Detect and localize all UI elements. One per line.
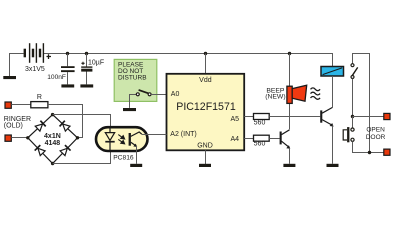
relay contact switch [352, 67, 358, 75]
node: rail junction at beeper [288, 52, 291, 55]
node: bridge bottom corner [51, 162, 54, 165]
wire: Q1 emitter to ground [289, 148, 291, 164]
wire: Q2 emitter to ground [332, 125, 334, 163]
svg-text:A2 (INT): A2 (INT) [170, 131, 196, 138]
wire: A5 stub [244, 116, 253, 118]
capacitor C2 10uF electrolytic [81, 66, 92, 67]
ground (100nF) [61, 84, 74, 87]
svg-text:(NEW): (NEW) [265, 94, 285, 101]
svg-text:DISTURB: DISTURB [118, 75, 147, 82]
diode D2 (right to top) [60, 121, 71, 132]
svg-text:A4: A4 [230, 136, 239, 143]
diode D1 (left to top) [35, 121, 46, 132]
capacitor C1 100nF [61, 66, 75, 68]
svg-text:560: 560 [254, 141, 266, 148]
node: bridge top corner [51, 113, 54, 116]
terminal ringer top [5, 102, 11, 108]
svg-text:OPEN: OPEN [366, 127, 385, 134]
resistor R3 560 [254, 135, 270, 141]
wire: bridge minus to opto cathode [53, 151, 111, 164]
opto phototransistor [129, 133, 131, 146]
wire: beeper to Q1 collector [289, 103, 291, 129]
ground (Q2) [327, 164, 339, 167]
wire: to door terminal top [353, 116, 384, 118]
resistor R2 560 [254, 114, 270, 120]
svg-text:A0: A0 [171, 91, 180, 98]
node: bridge left corner [26, 136, 29, 139]
wire: bridge plus to opto anode [53, 115, 111, 128]
wire: opto emitter to ground [136, 146, 138, 164]
optocoupler U2 PC816 body [96, 127, 148, 151]
wire: Vdd [205, 54, 207, 74]
opto light arrows [118, 135, 124, 144]
transistor Q1 [280, 132, 282, 145]
opto LED [109, 127, 111, 151]
ground (disturb switch) [123, 108, 136, 111]
wire: pushbutton to door terminal bottom [353, 141, 384, 152]
wire: node to pushbutton [352, 117, 354, 128]
svg-text:R: R [37, 94, 42, 101]
diode D3 (bottom to left) [35, 145, 46, 156]
transistor Q2 [320, 110, 322, 122]
svg-text:(OLD): (OLD) [4, 123, 23, 130]
wire: 100nF stubs [67, 54, 69, 85]
wire: A4 stub [244, 138, 253, 140]
svg-text:560: 560 [254, 120, 266, 127]
ground (opto) [130, 164, 142, 167]
pushbutton S2 [351, 128, 354, 131]
wire: chip GND to ground [205, 150, 207, 164]
beeper sound waves [311, 88, 321, 99]
wire: 560 to Q1 base [269, 138, 279, 140]
relay K1 coil [321, 67, 344, 77]
ground (10uF) [80, 84, 93, 87]
wire: relay to Q2 collector [332, 76, 334, 107]
node: bridge right corner [76, 136, 79, 139]
node: rail junction at 100nF [66, 52, 69, 55]
resistor R [31, 102, 48, 108]
wire: contact to node [352, 79, 354, 117]
wire: R to bridge right corner [48, 105, 83, 138]
svg-text:3x1V5: 3x1V5 [25, 66, 45, 73]
ground (chip) [199, 164, 211, 167]
svg-text:DOOR: DOOR [366, 134, 386, 141]
node: rail junction at 10uF [85, 52, 88, 55]
beeper LS1 [287, 86, 292, 103]
wire: switch to A0 [151, 94, 166, 96]
note box PLEASE DO NOT DISTURB [114, 59, 157, 101]
wire: ringer top to R [11, 104, 31, 106]
node: door bottom junction [368, 151, 371, 154]
wire: contact loop [353, 54, 370, 153]
wire: opto collector to A2 [142, 134, 167, 136]
wire: switch to ground [130, 95, 137, 108]
svg-text:GND: GND [197, 143, 213, 150]
svg-text:A5: A5 [230, 116, 239, 123]
terminal door bottom [384, 149, 390, 155]
wire: rail to beeper [289, 54, 291, 87]
node: door top junction [351, 115, 354, 118]
svg-text:PIC12F1571: PIC12F1571 [176, 101, 236, 113]
ground (battery) [3, 76, 16, 79]
wire: ringer bottom to bridge left corner [11, 137, 28, 139]
svg-text:Vdd: Vdd [199, 77, 212, 84]
svg-text:10µF: 10µF [88, 60, 104, 67]
battery BT1 3x1V5 [24, 43, 45, 63]
wire: 560 to Q2 base [269, 116, 320, 118]
terminal ringer bottom [5, 135, 11, 141]
op chip U1 PIC12F1571 [167, 74, 245, 151]
wire: top supply rail [44, 54, 333, 67]
wire: 10uF stubs [86, 54, 88, 85]
wire: battery negative to ground [10, 54, 24, 77]
bridge arms [28, 115, 78, 164]
svg-text:4148: 4148 [45, 140, 61, 147]
node: rail junction at Vdd [204, 52, 207, 55]
terminal door top [384, 113, 390, 119]
svg-text:PC816: PC816 [113, 155, 134, 162]
switch S1 (do not disturb) [139, 90, 150, 94]
svg-text:100nF: 100nF [47, 74, 66, 81]
ground (Q1) [283, 164, 295, 167]
diode D4 (bottom to right) [60, 145, 71, 156]
